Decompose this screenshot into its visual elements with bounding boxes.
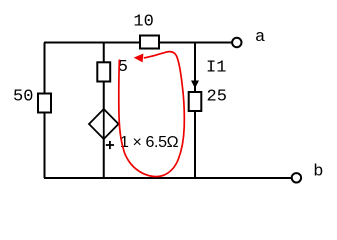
wire bottom horizontal node b rail	[44, 177, 292, 179]
wire left branch vertical	[44, 43, 46, 179]
resistor 10 (top, horizontal box)	[140, 36, 159, 49]
polarity plus sign	[106, 144, 114, 146]
current arrow I1 (arrowhead on right branch)	[192, 81, 198, 87]
svg-text:1 × 6.5Ω: 1 × 6.5Ω	[120, 134, 179, 151]
red mesh current loop	[119, 52, 184, 177]
svg-text:10: 10	[133, 13, 153, 32]
svg-text:a: a	[255, 28, 265, 47]
wire top horizontal node a rail	[44, 42, 232, 44]
svg-text:b: b	[313, 162, 323, 181]
svg-text:25: 25	[207, 87, 227, 106]
resistor 50 (left branch box)	[38, 94, 51, 113]
red arrowhead of loop	[134, 54, 144, 63]
dependent source U1 (diamond)	[89, 109, 119, 139]
wire right branch vertical	[194, 43, 196, 179]
resistor 25 (right branch box)	[189, 92, 202, 111]
resistor 5 (middle branch box)	[97, 62, 110, 81]
svg-text:I1: I1	[206, 58, 226, 77]
wire middle branch vertical	[103, 43, 105, 179]
terminal b (open circle)	[292, 173, 301, 182]
svg-text:50: 50	[13, 87, 33, 106]
terminal a (open circle)	[232, 38, 241, 47]
